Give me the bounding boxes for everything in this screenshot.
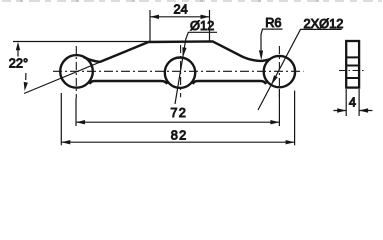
- faint cropped text noise along top edge: [2, 0, 382, 2]
- svg-text:4: 4: [349, 95, 356, 110]
- svg-text:24: 24: [174, 1, 188, 16]
- left lobe circle: [60, 55, 93, 88]
- side view outline rect: [346, 41, 359, 88]
- svg-text:2XØ12: 2XØ12: [304, 16, 344, 31]
- angular dim 22deg: down arrow on inclined line: [25, 73, 27, 80]
- vertical centerline left lobe: [75, 46, 77, 98]
- dim 82: dimension line: [61, 141, 294, 143]
- svg-text:22°: 22°: [9, 56, 28, 71]
- dim 72: dimension line: [76, 121, 279, 123]
- dim 24: extension lines: [150, 10, 210, 41]
- dim 4: dimension line arrows outside: [334, 110, 373, 112]
- angular dim 22deg: up arrow at horizontal line: [17, 45, 19, 57]
- part bottom edge (right segment): [193, 81, 267, 84]
- middle boss circle: [165, 57, 195, 87]
- right lobe circle: [264, 56, 295, 87]
- part bottom edge (left segment): [90, 81, 168, 84]
- svg-text:Ø12: Ø12: [190, 18, 214, 33]
- side view centerline: [339, 70, 366, 72]
- vertical centerline right lobe: [278, 46, 280, 97]
- svg-text:82: 82: [171, 127, 188, 142]
- horizontal centerline (main view): [53, 70, 304, 72]
- dim 24: dimension line with arrows: [150, 16, 210, 18]
- angular dim 22deg: inclined extension line through left lobe: [24, 42, 149, 94]
- svg-text:R6: R6: [265, 15, 281, 30]
- dim 4: extension lines: [346, 89, 359, 116]
- vertical centerline middle boss: [180, 45, 182, 97]
- part top profile: left valley, incline, plateau, right descent, R6 valley: [84, 41, 270, 62]
- dim 72: extension lines: [76, 90, 279, 126]
- angular dim 22deg: horizontal extension line: [13, 41, 149, 43]
- svg-text:72: 72: [170, 105, 187, 120]
- dim 82: extension lines: [61, 91, 294, 146]
- side view inner edge lines: [346, 57, 359, 78]
